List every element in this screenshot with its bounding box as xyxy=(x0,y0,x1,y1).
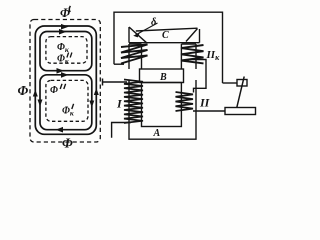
arrow right on top window top xyxy=(59,29,67,35)
right figure xyxy=(103,12,256,139)
air gap arrow delta xyxy=(136,23,158,35)
wire: slider feed xyxy=(223,82,238,84)
winding II coil xyxy=(176,92,194,111)
arrow right on outer solid top xyxy=(61,24,69,30)
svg-text:IIκ: IIκ xyxy=(206,49,221,62)
outer leakage flux dashed loop Phi-super xyxy=(30,20,100,143)
svg-text:II: II xyxy=(199,96,211,110)
bottom window inner dashed loop Phi-k' xyxy=(46,80,88,121)
svg-text:Φκ: Φκ xyxy=(57,42,70,54)
movable yoke C (3d slab) xyxy=(129,27,200,43)
arrow right on top window bottom xyxy=(57,68,65,74)
wire: frame stub to upper-left coil xyxy=(114,63,124,65)
arrow down on bottom window right xyxy=(89,101,94,108)
arrow up on outer solid left xyxy=(33,90,38,97)
top window flux solid loop xyxy=(40,32,92,71)
svg-text:I: I xyxy=(116,97,123,111)
top window inner dashed loop Phi-k xyxy=(46,37,87,64)
rheostat slider lever xyxy=(237,77,244,108)
wire: winding I top terminal xyxy=(103,81,128,83)
svg-text:А: А xyxy=(153,128,161,139)
wire: winding I bottom terminal xyxy=(112,123,131,138)
terminal tick of winding I (top) xyxy=(102,79,104,86)
rheostat slider box xyxy=(237,80,247,87)
svg-text:Φ: Φ xyxy=(18,83,29,98)
bottom window flux solid loop xyxy=(40,75,92,130)
winding IIk left half (upper-left coil) xyxy=(121,45,148,64)
svg-text:Φ: Φ xyxy=(60,6,70,20)
svg-text:В: В xyxy=(159,72,167,83)
svg-text:С: С xyxy=(162,30,169,41)
flux direction arrows xyxy=(33,24,99,133)
arrow down on bottom window left xyxy=(38,100,43,107)
core lower window xyxy=(142,83,182,127)
core left leg upper xyxy=(129,44,142,69)
arrow right on bottom window top xyxy=(61,72,69,78)
svg-text:Φ: Φ xyxy=(62,136,73,151)
main flux solid loop (outer) xyxy=(35,26,96,134)
winding I coil xyxy=(124,80,143,124)
winding IIk right half (upper-right coil) xyxy=(181,45,204,63)
svg-text:Φ: Φ xyxy=(50,85,58,96)
core yoke B xyxy=(140,69,184,83)
rheostat resistor body xyxy=(225,108,256,115)
wire: top frame xyxy=(114,12,223,83)
wire: winding II to resistor xyxy=(193,110,225,112)
wire: IIk to II series link xyxy=(190,60,206,93)
core right leg upper xyxy=(181,44,196,69)
core outline legs + yoke A xyxy=(129,80,196,139)
arrow left on bottom window bottom xyxy=(56,127,64,133)
svg-text:δ: δ xyxy=(151,17,157,28)
arrow up on outer solid right xyxy=(94,88,99,95)
